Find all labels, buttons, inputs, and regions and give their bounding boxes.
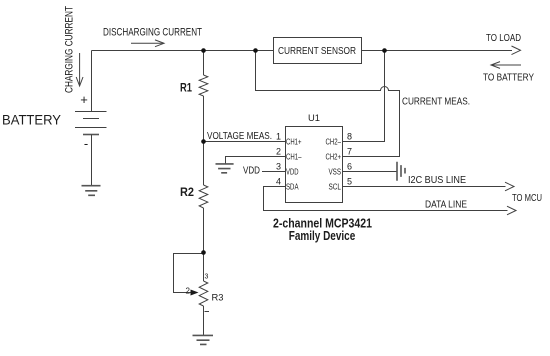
svg-text:CH2–: CH2– bbox=[326, 137, 342, 146]
svg-text:CURRENT MEAS.: CURRENT MEAS. bbox=[402, 96, 470, 107]
svg-text:+: + bbox=[80, 92, 88, 107]
svg-text:CH2+: CH2+ bbox=[326, 152, 342, 161]
svg-text:TO BATTERY: TO BATTERY bbox=[483, 73, 534, 84]
svg-text:I2C BUS LINE: I2C BUS LINE bbox=[408, 175, 466, 186]
svg-text:6: 6 bbox=[347, 162, 352, 172]
svg-text:BATTERY: BATTERY bbox=[2, 112, 62, 128]
svg-text:2: 2 bbox=[276, 147, 281, 157]
svg-text:R2: R2 bbox=[180, 185, 194, 199]
svg-text:8: 8 bbox=[347, 132, 352, 142]
svg-text:CURRENT SENSOR: CURRENT SENSOR bbox=[278, 46, 356, 57]
svg-text:VOLTAGE MEAS.: VOLTAGE MEAS. bbox=[207, 131, 272, 142]
svg-text:VDD: VDD bbox=[286, 167, 299, 176]
svg-text:R3: R3 bbox=[212, 293, 224, 303]
svg-text:SCL: SCL bbox=[329, 182, 342, 191]
svg-text:TO MCU: TO MCU bbox=[512, 193, 542, 204]
svg-text:DISCHARGING CURRENT: DISCHARGING CURRENT bbox=[103, 27, 202, 39]
svg-text:U1: U1 bbox=[308, 113, 320, 123]
svg-text:VDD: VDD bbox=[243, 166, 260, 177]
svg-text:7: 7 bbox=[347, 147, 352, 157]
svg-text:SDA: SDA bbox=[286, 182, 299, 191]
svg-text:-: - bbox=[84, 136, 88, 151]
svg-text:CH1+: CH1+ bbox=[286, 137, 302, 146]
svg-text:5: 5 bbox=[347, 177, 352, 187]
svg-text:1: 1 bbox=[276, 132, 281, 142]
svg-text:DATA LINE: DATA LINE bbox=[425, 200, 467, 211]
svg-text:3: 3 bbox=[276, 162, 281, 172]
svg-text:TO LOAD: TO LOAD bbox=[486, 33, 521, 44]
svg-text:CHARGING CURRENT: CHARGING CURRENT bbox=[64, 6, 76, 93]
svg-text:2: 2 bbox=[186, 287, 191, 296]
svg-text:R1: R1 bbox=[180, 81, 192, 95]
svg-text:3: 3 bbox=[205, 274, 209, 281]
svg-text:4: 4 bbox=[276, 177, 281, 187]
svg-text:VSS: VSS bbox=[329, 167, 342, 176]
svg-text:Family Device: Family Device bbox=[289, 228, 356, 243]
svg-text:CH1–: CH1– bbox=[286, 152, 302, 161]
